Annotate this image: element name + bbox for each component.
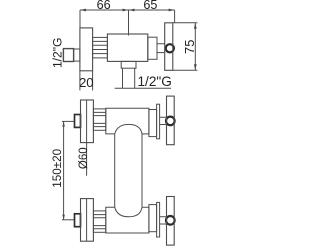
handle bar (167, 96, 175, 145)
ext line top (62, 120, 75, 122)
20 dim extension lines (80, 71, 93, 91)
75 dim extension lines (173, 23, 198, 71)
bonnet washer (157, 202, 160, 237)
150±20 dim line (63, 121, 65, 219)
top inlet assembly (62, 96, 175, 145)
svg-text:1/2"G: 1/2"G (51, 38, 65, 69)
handle bar (167, 197, 175, 246)
150±20 arrows (62, 121, 65, 219)
nut ridges (93, 215, 105, 229)
ribbed nut (top view) (93, 37, 108, 58)
hub circle (166, 216, 175, 225)
outlet collar (121, 61, 136, 68)
extension line right (x=174.6) (174, 10, 176, 23)
svg-text:66: 66 (97, 0, 111, 12)
trunk (body cylinder) (115, 134, 142, 207)
75 dim line (194, 23, 196, 71)
inlet square (75, 115, 81, 128)
neck (74, 49, 80, 61)
inlet square (75, 214, 81, 227)
hub circle (166, 117, 175, 126)
bonnet (149, 110, 157, 137)
valve cap (106, 108, 149, 134)
flange inner line (86, 199, 88, 242)
wall flange (81, 199, 94, 242)
valve cap (106, 207, 149, 233)
dome arch (115, 124, 142, 133)
wall flange (top view) (80, 28, 93, 71)
ext line bottom (62, 219, 75, 221)
arrowheads top dim (80, 9, 129, 12)
nut ridges (93, 112, 105, 126)
svg-text:75: 75 (182, 40, 197, 54)
extension line middle (x=128.5) (128, 10, 130, 36)
nut ridges (93, 41, 108, 53)
dome arch (115, 207, 142, 217)
bonnet (149, 205, 157, 232)
svg-text:1/2"G: 1/2"G (138, 74, 172, 89)
outlet pipe (123, 68, 135, 88)
ribbed nut (93, 109, 105, 130)
leader underline 1/2"G (115, 87, 171, 89)
svg-text:150±20: 150±20 (51, 148, 64, 187)
handle bar (top view, edge-on) (165, 23, 173, 71)
top view: dimension line 66/65 (80, 9, 175, 11)
bottom inlet assembly (mirrored) (62, 197, 175, 246)
svg-text:65: 65 (143, 0, 157, 12)
svg-text:20: 20 (79, 75, 94, 90)
ribbed nut (93, 211, 105, 232)
Ø60 leader line (86, 143, 88, 176)
stem (160, 117, 166, 124)
mixer body (top view) (107, 34, 147, 61)
flange inner line (86, 100, 88, 143)
extension line left (x=80) (79, 10, 81, 28)
wall flange (81, 100, 94, 143)
svg-text:Ø60: Ø60 (78, 147, 90, 169)
stem (160, 217, 166, 224)
cartridge block (148, 37, 157, 59)
75 arrows (194, 23, 197, 71)
handle hub circle (top view) (166, 44, 174, 52)
stem (top view) (157, 44, 165, 53)
inlet square (top view) (63, 49, 73, 62)
bonnet washer (157, 104, 160, 139)
